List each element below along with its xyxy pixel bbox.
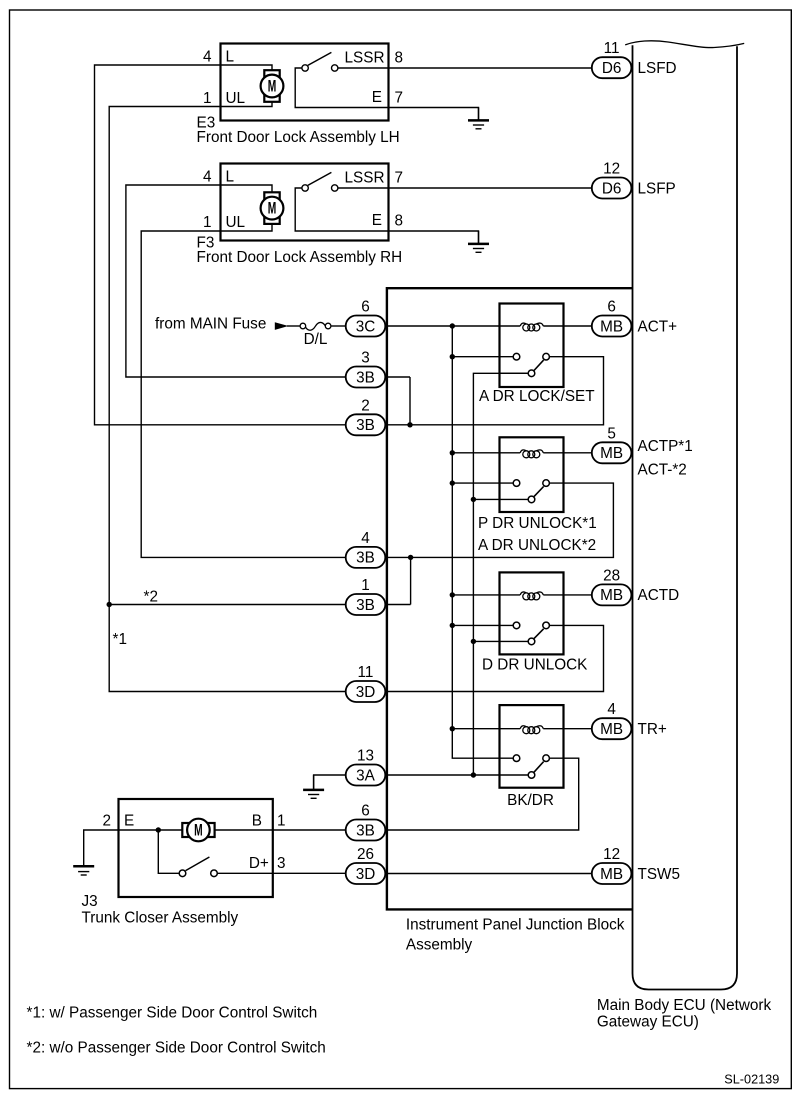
svg-text:8: 8 bbox=[395, 50, 404, 67]
svg-text:SL-02139: SL-02139 bbox=[724, 1073, 779, 1087]
svg-text:*2: w/o Passenger Side Door Co: *2: w/o Passenger Side Door Control Swit… bbox=[27, 1039, 326, 1056]
svg-text:B: B bbox=[252, 813, 262, 830]
svg-text:12: 12 bbox=[603, 846, 620, 863]
svg-text:D DR UNLOCK: D DR UNLOCK bbox=[482, 657, 588, 674]
svg-text:D6: D6 bbox=[602, 60, 622, 77]
svg-text:4: 4 bbox=[607, 701, 616, 718]
svg-text:E: E bbox=[372, 212, 382, 229]
svg-text:LSSR: LSSR bbox=[345, 169, 385, 186]
svg-text:26: 26 bbox=[357, 846, 374, 863]
svg-text:TSW5: TSW5 bbox=[638, 866, 681, 883]
svg-text:6: 6 bbox=[361, 299, 370, 316]
svg-text:7: 7 bbox=[395, 89, 404, 106]
svg-text:MB: MB bbox=[600, 587, 623, 604]
svg-text:L: L bbox=[226, 169, 235, 186]
svg-text:Front Door Lock Assembly LH: Front Door Lock Assembly LH bbox=[197, 129, 400, 146]
svg-text:8: 8 bbox=[395, 212, 404, 229]
svg-text:E: E bbox=[372, 89, 382, 106]
svg-text:MB: MB bbox=[600, 866, 623, 883]
svg-text:Front Door Lock Assembly RH: Front Door Lock Assembly RH bbox=[197, 249, 403, 266]
svg-text:M: M bbox=[194, 821, 203, 839]
svg-text:LSFP: LSFP bbox=[638, 180, 676, 197]
svg-text:3A: 3A bbox=[356, 767, 376, 784]
svg-text:3C: 3C bbox=[356, 318, 376, 335]
svg-text:Trunk Closer Assembly: Trunk Closer Assembly bbox=[82, 910, 239, 927]
svg-text:2: 2 bbox=[102, 813, 111, 830]
svg-text:28: 28 bbox=[603, 567, 620, 584]
svg-text:D6: D6 bbox=[602, 180, 622, 197]
svg-text:11: 11 bbox=[358, 664, 374, 681]
svg-text:3: 3 bbox=[361, 350, 370, 367]
svg-text:E: E bbox=[124, 813, 134, 830]
svg-text:3B: 3B bbox=[356, 417, 375, 434]
svg-text:ACT-*2: ACT-*2 bbox=[638, 461, 687, 478]
svg-text:UL: UL bbox=[226, 90, 246, 107]
svg-text:1: 1 bbox=[203, 214, 212, 231]
svg-text:2: 2 bbox=[361, 397, 370, 414]
svg-text:UL: UL bbox=[226, 214, 246, 231]
svg-text:*1: w/ Passenger Side Door Con: *1: w/ Passenger Side Door Control Switc… bbox=[27, 1005, 318, 1022]
svg-text:MB: MB bbox=[600, 721, 623, 738]
svg-text:Assembly: Assembly bbox=[406, 937, 473, 954]
svg-text:MB: MB bbox=[600, 445, 623, 462]
svg-text:J3: J3 bbox=[82, 893, 98, 910]
svg-text:Gateway ECU): Gateway ECU) bbox=[597, 1014, 699, 1031]
svg-text:13: 13 bbox=[357, 748, 374, 765]
svg-text:from MAIN Fuse: from MAIN Fuse bbox=[155, 316, 266, 333]
svg-text:1: 1 bbox=[203, 90, 212, 107]
svg-text:4: 4 bbox=[203, 49, 212, 66]
svg-text:D+: D+ bbox=[249, 855, 269, 872]
svg-text:M: M bbox=[268, 77, 277, 95]
svg-text:L: L bbox=[226, 49, 235, 66]
svg-text:ACT+: ACT+ bbox=[638, 318, 678, 335]
svg-text:ACTD: ACTD bbox=[638, 587, 680, 604]
svg-text:3D: 3D bbox=[356, 684, 376, 701]
svg-text:LSFD: LSFD bbox=[638, 60, 677, 77]
svg-text:3B: 3B bbox=[356, 550, 375, 567]
svg-text:1: 1 bbox=[361, 577, 370, 594]
svg-text:4: 4 bbox=[203, 169, 212, 186]
svg-text:4: 4 bbox=[361, 530, 370, 547]
svg-text:6: 6 bbox=[607, 299, 616, 316]
svg-text:P DR UNLOCK*1: P DR UNLOCK*1 bbox=[478, 515, 597, 532]
svg-text:3B: 3B bbox=[356, 822, 375, 839]
svg-text:A DR UNLOCK*2: A DR UNLOCK*2 bbox=[478, 537, 596, 554]
svg-text:D/L: D/L bbox=[304, 331, 328, 348]
svg-text:*1: *1 bbox=[113, 631, 127, 648]
svg-text:Instrument Panel Junction Bloc: Instrument Panel Junction Block bbox=[406, 917, 625, 934]
svg-text:6: 6 bbox=[361, 803, 370, 820]
svg-text:3B: 3B bbox=[356, 597, 375, 614]
svg-text:3D: 3D bbox=[356, 866, 376, 883]
svg-text:3: 3 bbox=[277, 855, 286, 872]
svg-text:ACTP*1: ACTP*1 bbox=[638, 438, 693, 455]
svg-text:3B: 3B bbox=[356, 369, 375, 386]
svg-text:M: M bbox=[268, 199, 277, 217]
svg-text:BK/DR: BK/DR bbox=[507, 792, 554, 809]
svg-text:*2: *2 bbox=[144, 589, 158, 606]
svg-text:1: 1 bbox=[277, 813, 286, 830]
svg-text:A DR LOCK/SET: A DR LOCK/SET bbox=[479, 388, 595, 405]
svg-text:Main Body ECU (Network: Main Body ECU (Network bbox=[597, 997, 772, 1014]
svg-text:LSSR: LSSR bbox=[345, 49, 385, 66]
svg-text:TR+: TR+ bbox=[638, 721, 667, 738]
svg-text:7: 7 bbox=[395, 170, 404, 187]
svg-text:11: 11 bbox=[604, 40, 620, 57]
svg-text:MB: MB bbox=[600, 318, 623, 335]
svg-text:12: 12 bbox=[603, 161, 620, 178]
svg-text:5: 5 bbox=[607, 425, 616, 442]
